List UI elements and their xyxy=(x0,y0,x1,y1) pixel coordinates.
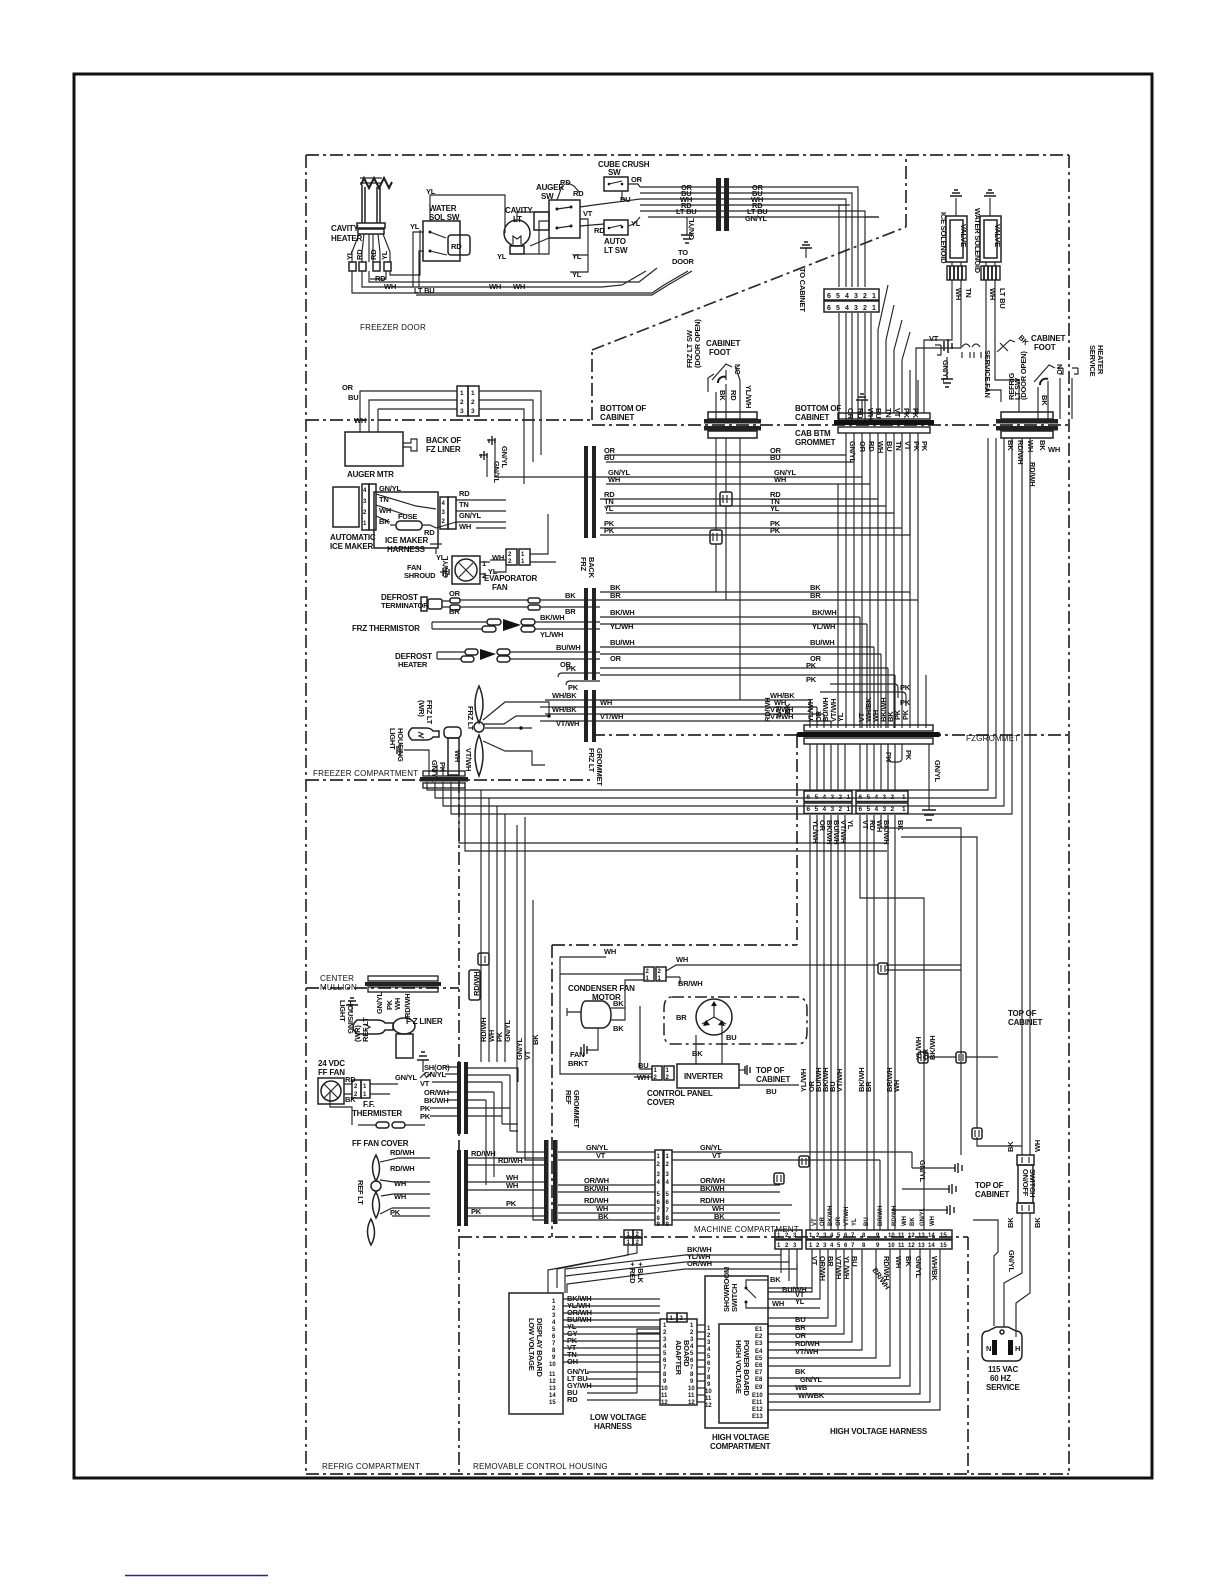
svg-text:E12: E12 xyxy=(752,1407,763,1413)
ref lt bulbs xyxy=(356,1148,430,1245)
svg-text:9: 9 xyxy=(552,1355,556,1361)
svg-text:SERVICE: SERVICE xyxy=(986,1383,1020,1392)
svg-text:E8: E8 xyxy=(755,1377,763,1383)
svg-text:CONTROL PANEL: CONTROL PANEL xyxy=(647,1089,713,1098)
svg-text:2: 2 xyxy=(646,969,650,975)
svg-text:5: 5 xyxy=(690,1351,694,1357)
svg-text:WH: WH xyxy=(459,522,471,531)
svg-text:4: 4 xyxy=(830,1243,834,1249)
svg-text:10: 10 xyxy=(888,1233,895,1239)
low voltage display board xyxy=(509,1293,660,1414)
svg-text:REF: REF xyxy=(564,1090,573,1105)
svg-text:E13: E13 xyxy=(752,1414,763,1420)
svg-text:REFRIG COMPARTMENT: REFRIG COMPARTMENT xyxy=(322,1462,420,1471)
svg-text:FZGROMMET: FZGROMMET xyxy=(966,734,1019,743)
svg-text:YL/WH: YL/WH xyxy=(610,622,633,631)
svg-text:TO CABINET: TO CABINET xyxy=(798,268,807,312)
svg-text:PK: PK xyxy=(912,441,921,452)
svg-text:10: 10 xyxy=(705,1389,712,1395)
blue footer underline xyxy=(125,1575,268,1577)
svg-text:FF FAN: FF FAN xyxy=(318,1068,345,1077)
svg-text:+ BLK: + BLK xyxy=(636,1262,645,1284)
svg-text:WH: WH xyxy=(892,1080,901,1092)
svg-text:GN/YL: GN/YL xyxy=(459,511,482,520)
svg-text:3: 3 xyxy=(363,499,367,505)
svg-text:BK: BK xyxy=(1038,440,1047,451)
svg-text:RD: RD xyxy=(459,489,470,498)
svg-text:BU: BU xyxy=(766,1087,776,1096)
high voltage power board xyxy=(705,1324,768,1423)
fz grommet dash line xyxy=(592,734,1069,736)
svg-text:2: 2 xyxy=(442,519,446,525)
svg-text:E11: E11 xyxy=(752,1400,763,1406)
frz lt grommet bar xyxy=(584,690,604,786)
svg-text:2: 2 xyxy=(891,806,895,813)
svg-text:COMPARTMENT: COMPARTMENT xyxy=(710,1442,771,1451)
svg-text:PK: PK xyxy=(904,750,913,761)
svg-text:1: 1 xyxy=(872,293,876,300)
svg-text:CABINET: CABINET xyxy=(975,1190,1009,1199)
svg-text:ICE MAKER: ICE MAKER xyxy=(385,536,429,545)
svg-text:WH: WH xyxy=(506,1181,518,1190)
svg-text:LOW VOLTAGE: LOW VOLTAGE xyxy=(527,1318,536,1371)
svg-text:CENTER: CENTER xyxy=(320,974,354,983)
svg-text:BK: BK xyxy=(531,1034,540,1045)
svg-text:WH: WH xyxy=(774,706,783,718)
compartment boundary bottom xyxy=(306,1473,1069,1475)
compartment boundary top xyxy=(306,154,1069,156)
svg-text:FOOT: FOOT xyxy=(1034,343,1056,352)
svg-text:LIGHT: LIGHT xyxy=(388,728,397,750)
svg-text:FRZ: FRZ xyxy=(579,557,588,572)
svg-text:VT/WH: VT/WH xyxy=(835,1069,844,1092)
svg-text:5: 5 xyxy=(707,1354,711,1360)
ref grommet bar xyxy=(544,1140,549,1224)
frz thermistor RT1 xyxy=(352,613,600,639)
right cabinet foot grommet xyxy=(996,412,1060,486)
svg-text:2: 2 xyxy=(508,552,512,558)
pk stubs right of grommet xyxy=(820,684,906,706)
svg-text:2: 2 xyxy=(690,1330,694,1336)
svg-text:BK/WH: BK/WH xyxy=(882,820,891,844)
removable control housing top boundary xyxy=(459,1236,968,1238)
center mullion dash line xyxy=(306,987,459,989)
wires ref lt grommet to right xyxy=(468,1149,544,1216)
svg-text:5: 5 xyxy=(867,806,871,813)
svg-text:VT: VT xyxy=(929,334,939,343)
svg-text:OR/WH: OR/WH xyxy=(687,1259,712,1268)
svg-text:YL: YL xyxy=(572,252,582,261)
svg-text:13: 13 xyxy=(918,1243,925,1249)
svg-text:GN/YL: GN/YL xyxy=(914,1256,923,1279)
svg-text:12: 12 xyxy=(549,1379,556,1385)
svg-text:TERMINATOR: TERMINATOR xyxy=(381,601,429,610)
svg-text:BU/WH: BU/WH xyxy=(556,643,580,652)
light housing lamp xyxy=(388,727,473,783)
svg-text:RD: RD xyxy=(355,249,364,260)
svg-text:9: 9 xyxy=(707,1382,711,1388)
svg-text:1: 1 xyxy=(363,521,367,527)
svg-text:LIGHT: LIGHT xyxy=(338,1000,347,1022)
svg-text:12: 12 xyxy=(908,1233,915,1239)
svg-text:VT: VT xyxy=(712,1151,722,1160)
svg-text:7: 7 xyxy=(851,1233,855,1239)
svg-text:2: 2 xyxy=(354,1084,358,1090)
svg-text:ADAPTER: ADAPTER xyxy=(674,1340,683,1376)
svg-text:9: 9 xyxy=(690,1379,694,1385)
svg-text:WH: WH xyxy=(774,475,786,484)
svg-text:LT BU: LT BU xyxy=(998,288,1007,309)
svg-text:VT: VT xyxy=(583,209,593,218)
svg-text:FAN: FAN xyxy=(492,583,508,592)
svg-text:HEATER: HEATER xyxy=(398,660,428,669)
svg-text:WH: WH xyxy=(394,1179,406,1188)
svg-text:OR: OR xyxy=(631,175,643,184)
wire bundle defrost circuits to trunk (BK BR BK/WH YL/WH BU/WH OR PK PK) xyxy=(600,592,918,675)
wire crossing verticals from cabinet foot xyxy=(860,617,895,728)
svg-text:AUTOMATIC: AUTOMATIC xyxy=(330,533,376,542)
svg-text:PK: PK xyxy=(770,526,781,535)
svg-text:4: 4 xyxy=(830,1233,834,1239)
svg-text:GN/YL: GN/YL xyxy=(424,1070,447,1079)
svg-text:VT/WH: VT/WH xyxy=(600,712,623,721)
svg-text:3: 3 xyxy=(471,408,475,415)
svg-text:BU: BU xyxy=(604,453,614,462)
svg-text:BK: BK xyxy=(1006,440,1015,451)
svg-text:GN/YL: GN/YL xyxy=(848,441,857,464)
svg-text:TN: TN xyxy=(964,288,973,298)
svg-text:WH: WH xyxy=(676,955,688,964)
compartment boundary left xyxy=(305,155,307,1474)
svg-text:HARNESS: HARNESS xyxy=(387,545,426,554)
svg-text:CABINET: CABINET xyxy=(756,1075,790,1084)
door grommet bar xyxy=(716,178,729,231)
svg-text:CAVITY: CAVITY xyxy=(331,224,359,233)
evap fan connector pair xyxy=(490,514,556,572)
refrig compartment right boundary xyxy=(458,780,460,1474)
svg-text:N: N xyxy=(986,1344,991,1353)
frz lt sw door open (left cabinet foot) xyxy=(685,319,753,419)
svg-text:BU: BU xyxy=(348,393,358,402)
svg-text:4: 4 xyxy=(666,1180,670,1186)
verticals grommet to 6pin blocks xyxy=(810,744,845,791)
svg-text:OR/WH: OR/WH xyxy=(818,1256,827,1281)
svg-text:2: 2 xyxy=(552,1306,556,1312)
svg-text:WH: WH xyxy=(954,288,963,300)
svg-text:E1: E1 xyxy=(755,1327,763,1333)
svg-text:BR: BR xyxy=(810,591,821,600)
svg-text:1: 1 xyxy=(690,1323,694,1329)
svg-text:13: 13 xyxy=(549,1386,556,1392)
frz back grommet bar xyxy=(579,446,596,579)
svg-text:FOOT: FOOT xyxy=(709,348,731,357)
svg-text:4: 4 xyxy=(690,1344,694,1350)
svg-text:4: 4 xyxy=(845,293,849,300)
svg-text:WH: WH xyxy=(608,475,620,484)
svg-text:BK: BK xyxy=(783,703,792,714)
svg-text:RD: RD xyxy=(369,249,378,260)
svg-text:3: 3 xyxy=(666,1172,670,1178)
svg-text:3: 3 xyxy=(854,293,858,300)
svg-text:BK: BK xyxy=(692,1049,703,1058)
to cabinet ground xyxy=(798,242,812,312)
svg-text:WH: WH xyxy=(489,282,501,291)
junction box right xyxy=(972,1128,982,1139)
service fan symbols xyxy=(929,333,1031,398)
3-pin connector to auger motor xyxy=(457,386,479,416)
svg-text:VT/WH: VT/WH xyxy=(556,719,579,728)
svg-text:YL: YL xyxy=(410,222,420,231)
wires to auger motor xyxy=(342,383,541,484)
svg-text:PK: PK xyxy=(806,675,817,684)
ff wire labels xyxy=(420,1063,457,1121)
svg-text:GN/YL: GN/YL xyxy=(933,760,942,783)
svg-text:BK: BK xyxy=(1017,333,1031,347)
svg-text:TOP OF: TOP OF xyxy=(975,1181,1004,1190)
svg-text:1: 1 xyxy=(777,1243,781,1249)
svg-text:AUGER MTR: AUGER MTR xyxy=(347,470,394,479)
svg-text:3: 3 xyxy=(831,806,835,813)
svg-text:24 VDC: 24 VDC xyxy=(318,1059,345,1068)
ref grommet vertical boundary xyxy=(551,945,553,1237)
svg-text:GN/YL: GN/YL xyxy=(492,461,501,484)
svg-text:10: 10 xyxy=(688,1386,695,1392)
svg-text:RD: RD xyxy=(856,408,865,419)
door wire bundle to grommet xyxy=(640,183,879,223)
svg-text:RD: RD xyxy=(594,226,605,235)
svg-text:HIGH VOLTAGE: HIGH VOLTAGE xyxy=(712,1433,770,1442)
svg-text:FREEZER COMPARTMENT: FREEZER COMPARTMENT xyxy=(313,769,418,778)
svg-text:2: 2 xyxy=(471,399,475,406)
svg-text:7: 7 xyxy=(851,1243,855,1249)
inline connector on foot wire xyxy=(720,492,732,506)
svg-text:BRKT: BRKT xyxy=(568,1059,589,1068)
svg-text:13: 13 xyxy=(918,1233,925,1239)
svg-text:BK: BK xyxy=(1033,1217,1042,1228)
svg-text:WH: WH xyxy=(379,506,391,515)
svg-text:8: 8 xyxy=(862,1233,866,1239)
svg-text:BK/WH: BK/WH xyxy=(540,613,564,622)
svg-text:BU: BU xyxy=(850,1256,859,1266)
gn/yl ground below grommet xyxy=(922,744,942,820)
high voltage compartment box xyxy=(705,1276,771,1451)
svg-text:E4: E4 xyxy=(755,1349,763,1355)
water sol sw S1 xyxy=(423,204,470,261)
cab btm grommet bar xyxy=(834,285,934,602)
svg-text:WH: WH xyxy=(604,947,616,956)
pk stubs left xyxy=(558,664,600,692)
svg-text:7: 7 xyxy=(707,1368,711,1374)
inline connector on foot wire 2 xyxy=(710,530,722,544)
svg-text:FRZ LT: FRZ LT xyxy=(587,748,596,773)
svg-text:WATER SOLENOID: WATER SOLENOID xyxy=(973,208,982,274)
svg-text:1: 1 xyxy=(872,305,876,312)
svg-text:12: 12 xyxy=(688,1400,695,1406)
svg-text:6: 6 xyxy=(690,1358,694,1364)
svg-text:6: 6 xyxy=(827,305,831,312)
svg-text:SW: SW xyxy=(608,168,621,177)
svg-text:5: 5 xyxy=(836,293,840,300)
svg-text:11: 11 xyxy=(688,1393,695,1399)
svg-text:CAVITY: CAVITY xyxy=(505,206,533,215)
svg-text:E2: E2 xyxy=(755,1334,763,1340)
junction boxes on wh wires xyxy=(878,963,998,1063)
svg-text:1: 1 xyxy=(809,1243,813,1249)
svg-text:VT: VT xyxy=(903,441,912,451)
door connector 6pin double xyxy=(824,289,879,312)
wires above grommet from door/valves xyxy=(878,330,918,413)
svg-text:YL/WH: YL/WH xyxy=(812,622,835,631)
compressor dash outline xyxy=(664,997,807,1044)
svg-text:WH/BK: WH/BK xyxy=(552,705,577,714)
1 2 3 connector xyxy=(775,1230,802,1249)
svg-text:12: 12 xyxy=(908,1243,915,1249)
machine 9pin connector xyxy=(655,1150,672,1228)
svg-text:SWITCH: SWITCH xyxy=(730,1284,739,1312)
removable control housing right boundary xyxy=(967,1237,969,1474)
wire bundle freezer back to trunk (OR BU GN/YL WH RD TN YL PK PK) xyxy=(600,435,910,535)
cavity light DS1 xyxy=(504,206,533,254)
svg-text:WH: WH xyxy=(866,408,875,420)
svg-text:15: 15 xyxy=(940,1243,947,1249)
svg-text:BR: BR xyxy=(610,591,621,600)
svg-text:W/WBK: W/WBK xyxy=(798,1391,825,1400)
outer page border frame xyxy=(74,74,1152,1478)
svg-text:BK: BK xyxy=(613,1024,624,1033)
svg-text:5: 5 xyxy=(666,1192,670,1198)
svg-text:4: 4 xyxy=(845,305,849,312)
cavity heater CR1 xyxy=(331,178,392,271)
svg-text:REF LT: REF LT xyxy=(361,1017,370,1042)
svg-text:10: 10 xyxy=(888,1243,895,1249)
svg-text:WH: WH xyxy=(600,698,612,707)
svg-text:BK/WH: BK/WH xyxy=(700,1184,724,1193)
svg-text:3: 3 xyxy=(552,1313,556,1319)
svg-text:RD/WH: RD/WH xyxy=(1016,440,1025,464)
long wires from right foot down to switch xyxy=(1022,438,1030,1155)
svg-text:YL: YL xyxy=(631,219,641,228)
svg-text:YL: YL xyxy=(497,252,507,261)
door lower wires RD WH LTBU xyxy=(352,230,692,295)
frz mid grommet bar xyxy=(584,588,596,680)
ff thermistor RT2 xyxy=(330,1091,425,1148)
fz 6pin connector block right xyxy=(856,791,908,814)
svg-text:VT: VT xyxy=(596,1151,606,1160)
svg-text:OR: OR xyxy=(836,1216,842,1226)
svg-text:GN/YL: GN/YL xyxy=(395,1073,418,1082)
diagonal boundary to cabinet xyxy=(592,227,906,350)
water solenoid valve L2 xyxy=(973,190,1002,274)
ice solenoid valve L1 xyxy=(939,190,968,264)
svg-text:HEATER: HEATER xyxy=(331,234,363,243)
svg-text:3: 3 xyxy=(823,1243,827,1249)
evaporator fan B1 xyxy=(441,553,538,592)
svg-text:11: 11 xyxy=(549,1372,556,1378)
svg-text:OR: OR xyxy=(342,383,354,392)
auger motor M1 xyxy=(345,432,417,479)
svg-text:YL: YL xyxy=(604,504,614,513)
svg-text:1: 1 xyxy=(552,1299,556,1305)
svg-text:BU: BU xyxy=(726,1033,736,1042)
svg-text:WH: WH xyxy=(394,1192,406,1201)
svg-text:12: 12 xyxy=(661,1400,668,1406)
fz grommet bar xyxy=(800,732,937,737)
svg-text:3: 3 xyxy=(793,1243,797,1249)
svg-text:9: 9 xyxy=(663,1379,667,1385)
svg-text:WH: WH xyxy=(930,1216,936,1226)
frz light grommet bar xyxy=(420,771,468,788)
svg-text:BK/WH: BK/WH xyxy=(584,1184,608,1193)
svg-text:CABINET: CABINET xyxy=(600,413,634,422)
condenser fan connector 2x2 xyxy=(560,947,961,1074)
svg-text:BK: BK xyxy=(910,1217,916,1226)
svg-text:5: 5 xyxy=(657,1192,661,1198)
svg-text:3: 3 xyxy=(442,510,446,516)
bkwh ylwh orwh wires to display board xyxy=(548,1245,797,1293)
svg-text:BU: BU xyxy=(770,453,780,462)
svg-text:1: 1 xyxy=(847,806,851,813)
ice valve connector xyxy=(947,262,966,280)
svg-text:HEATER: HEATER xyxy=(1096,345,1105,375)
svg-text:E6: E6 xyxy=(755,1363,763,1369)
svg-text:WH: WH xyxy=(772,1299,784,1308)
auto lt sw S4 xyxy=(594,219,641,255)
svg-text:3: 3 xyxy=(460,408,464,415)
svg-text:FRZ LT: FRZ LT xyxy=(466,706,475,731)
svg-text:OR: OR xyxy=(820,1216,826,1226)
svg-text:1: 1 xyxy=(363,1084,367,1090)
svg-text:AUTO: AUTO xyxy=(604,237,626,246)
nested L wires from frz light bar to right xyxy=(427,438,1012,851)
svg-text:SERVICE FAN: SERVICE FAN xyxy=(983,350,992,398)
svg-text:GROMMET: GROMMET xyxy=(795,438,836,447)
svg-text:YL: YL xyxy=(426,187,436,196)
svg-text:(DOOR OPEN): (DOOR OPEN) xyxy=(693,319,702,368)
ref lt grommet pair xyxy=(457,1150,468,1226)
svg-text:RD/WH: RD/WH xyxy=(390,1164,414,1173)
svg-text:PK: PK xyxy=(920,441,929,452)
svg-text:POWER BOARD: POWER BOARD xyxy=(742,1340,751,1397)
svg-text:3: 3 xyxy=(663,1337,667,1343)
svg-text:2: 2 xyxy=(666,1162,670,1168)
svg-text:PK: PK xyxy=(901,709,910,720)
vertical boundary at top xyxy=(905,155,907,227)
svg-text:F.F.: F.F. xyxy=(363,1100,375,1109)
svg-text:YL: YL xyxy=(770,504,780,513)
15 pin connector xyxy=(806,1230,952,1249)
svg-text:SWITCH: SWITCH xyxy=(1028,1169,1037,1197)
svg-text:6: 6 xyxy=(844,1243,848,1249)
svg-text:VT: VT xyxy=(523,1050,532,1060)
wires bundle bending down to cabinet xyxy=(830,187,879,425)
ff grommet pair xyxy=(457,1062,468,1134)
svg-text:PK: PK xyxy=(806,661,817,670)
svg-text:BK: BK xyxy=(896,820,905,831)
svg-text:6: 6 xyxy=(663,1358,667,1364)
svg-text:5: 5 xyxy=(836,305,840,312)
svg-text:REF LT: REF LT xyxy=(356,1180,365,1205)
svg-text:BR: BR xyxy=(826,1256,835,1267)
svg-text:9: 9 xyxy=(876,1243,880,1249)
svg-text:VT/WH: VT/WH xyxy=(464,748,473,771)
svg-text:15: 15 xyxy=(549,1400,556,1406)
svg-text:SHROUD: SHROUD xyxy=(404,571,436,580)
svg-text:GN/YL: GN/YL xyxy=(918,1160,927,1183)
svg-text:YL: YL xyxy=(852,1218,858,1226)
svg-text:2: 2 xyxy=(363,510,367,516)
svg-text:RD/WH: RD/WH xyxy=(390,1148,414,1157)
svg-text:1: 1 xyxy=(521,559,525,565)
